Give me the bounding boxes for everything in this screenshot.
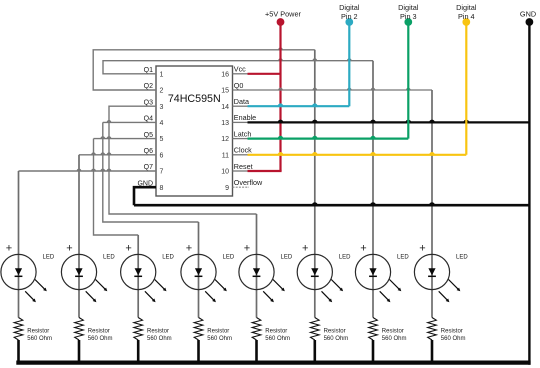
ground terminal GND [520, 10, 536, 26]
svg-text:560 Ohm: 560 Ohm [88, 336, 113, 342]
svg-text:LED: LED [43, 255, 55, 261]
svg-text:Resistor: Resistor [441, 329, 463, 335]
svg-text:4: 4 [160, 120, 164, 127]
svg-text:Vcc: Vcc [234, 65, 246, 74]
svg-text:GND: GND [520, 10, 536, 19]
pin 9 number and label Overflow [225, 178, 263, 192]
svg-text:Clock: Clock [234, 146, 252, 155]
pin 5 number and label Q5 [144, 132, 164, 143]
svg-text:Overflow: Overflow [234, 178, 263, 187]
svg-text:7: 7 [160, 169, 164, 176]
resistor R3 560 Ohm [134, 318, 172, 363]
resistor R2 560 Ohm [75, 318, 113, 363]
svg-text:2: 2 [160, 88, 164, 95]
LED D4 [181, 243, 235, 318]
resistor R6 560 Ohm [311, 318, 349, 363]
svg-text:11: 11 [222, 152, 229, 159]
svg-text:560 Ohm: 560 Ohm [382, 336, 407, 342]
ground vertical from GND terminal [528, 25, 530, 365]
svg-text:Pin 2: Pin 2 [341, 12, 358, 21]
pin 8 number and label GND [137, 180, 163, 191]
svg-text:+: + [419, 243, 425, 255]
svg-text:Q0: Q0 [234, 81, 244, 90]
svg-text:LED: LED [162, 255, 174, 261]
svg-text:LED: LED [103, 255, 115, 261]
svg-text:Digital: Digital [398, 3, 419, 12]
pin 12 number and label Latch [221, 129, 251, 143]
svg-text:1: 1 [160, 71, 164, 78]
svg-text:Q2: Q2 [144, 83, 153, 90]
pin 11 number and label Clock [222, 146, 252, 160]
svg-text:Resistor: Resistor [207, 329, 229, 335]
mid ground bus [134, 203, 529, 205]
svg-text:74HC595N: 74HC595N [168, 93, 221, 105]
svg-text:10: 10 [221, 169, 229, 176]
svg-text:+5V Power: +5V Power [265, 10, 301, 19]
svg-text:Resistor: Resistor [88, 329, 110, 335]
wire Q6 (pin 6) to LED 2 [79, 153, 156, 254]
resistor R5 560 Ohm [252, 318, 290, 363]
wire Reset (pin 10) to +5V [233, 170, 282, 172]
svg-text:Digital: Digital [456, 3, 477, 12]
pin 10 number and label Reset [221, 162, 252, 176]
svg-text:5: 5 [160, 136, 164, 143]
resistor R1 560 Ohm [14, 318, 52, 363]
svg-text:+: + [360, 243, 366, 255]
LED D8 [414, 243, 468, 318]
wire Q2 (pin 2) loop to LED 6 column [93, 48, 315, 254]
svg-text:Resistor: Resistor [324, 329, 346, 335]
svg-text:Q7: Q7 [144, 164, 153, 171]
svg-text:Q4: Q4 [144, 116, 153, 123]
LED D6 [297, 243, 351, 318]
svg-text:14: 14 [221, 104, 229, 111]
svg-text:LED: LED [223, 255, 235, 261]
LED D1 [1, 243, 55, 318]
svg-text:16: 16 [221, 71, 229, 78]
LED D7 [355, 243, 409, 318]
svg-text:Data: Data [234, 97, 249, 106]
wire Clock (pin 11) to Digital Pin 4 [233, 25, 467, 155]
svg-text:560 Ohm: 560 Ohm [27, 336, 52, 342]
svg-text:Resistor: Resistor [265, 329, 287, 335]
svg-text:560 Ohm: 560 Ohm [147, 336, 172, 342]
resistor R4 560 Ohm [194, 318, 232, 363]
pin 1 number and label Q1 [144, 67, 164, 78]
svg-text:9: 9 [225, 185, 229, 192]
terminal Digital Pin 2 [339, 3, 360, 26]
svg-text:Digital: Digital [339, 3, 360, 12]
wire Q0 (pin 15) to LED 8 [233, 88, 433, 254]
wire Q7 (pin 7) to LED 1 [19, 169, 157, 254]
wire Data (pin 14) to Digital Pin 2 [233, 25, 350, 106]
svg-text:15: 15 [221, 88, 229, 95]
svg-text:+: + [244, 243, 250, 255]
pin 14 number and label Data [221, 97, 249, 111]
svg-text:Latch: Latch [234, 129, 252, 138]
svg-text:8: 8 [160, 185, 164, 192]
svg-text:560 Ohm: 560 Ohm [207, 336, 232, 342]
svg-text:560 Ohm: 560 Ohm [324, 336, 349, 342]
pin 6 number and label Q6 [144, 148, 164, 159]
svg-text:Reset: Reset [234, 162, 253, 171]
svg-text:560 Ohm: 560 Ohm [441, 336, 466, 342]
pin 15 number and label Q0 [221, 81, 243, 95]
svg-text:6: 6 [160, 152, 164, 159]
svg-text:Resistor: Resistor [27, 329, 49, 335]
svg-text:+: + [66, 243, 72, 255]
svg-text:Q5: Q5 [144, 132, 153, 139]
svg-text:Q1: Q1 [144, 67, 153, 74]
wire Vcc (pin 16) to +5V [233, 73, 281, 75]
wire Q5 (pin 5) to LED 3 [94, 137, 157, 254]
svg-text:Q6: Q6 [144, 148, 153, 155]
terminal Digital Pin 4 [456, 3, 477, 26]
wire Latch (pin 12) to Digital Pin 3 [233, 25, 409, 139]
LED D5 [239, 243, 293, 318]
svg-text:3: 3 [160, 104, 164, 111]
wire +5V vertical [279, 25, 281, 171]
wire Enable (pin 13) to GND rail [233, 121, 530, 123]
svg-text:LED: LED [397, 255, 409, 261]
wire Overflow (pin 9) unconnected stub [233, 186, 250, 188]
pin 2 number and label Q2 [144, 83, 164, 94]
svg-text:Enable: Enable [234, 113, 256, 122]
svg-text:Pin 3: Pin 3 [400, 12, 417, 21]
resistor R8 560 Ohm [428, 318, 466, 363]
bottom ground bus [16, 361, 530, 365]
wire Q3 (pin 3) to LED 5 [109, 106, 257, 254]
svg-text:+: + [125, 243, 131, 255]
svg-text:+: + [302, 243, 308, 255]
svg-text:Pin 4: Pin 4 [458, 12, 475, 21]
wire Q1 (pin 1) loop to LED 7 column [103, 59, 373, 254]
pin 4 number and label Q4 [144, 116, 164, 127]
svg-text:Resistor: Resistor [382, 329, 404, 335]
svg-text:12: 12 [221, 136, 229, 143]
svg-text:LED: LED [281, 255, 293, 261]
pin 7 number and label Q7 [144, 164, 164, 175]
resistor R7 560 Ohm [369, 318, 407, 363]
LED D2 [61, 243, 115, 318]
svg-text:13: 13 [221, 120, 229, 127]
terminal Digital Pin 3 [398, 3, 419, 26]
power terminal +5V Power [265, 10, 301, 26]
svg-text:Q3: Q3 [144, 99, 153, 106]
pin 3 number and label Q3 [144, 99, 164, 110]
svg-text:+: + [6, 243, 12, 255]
svg-text:560 Ohm: 560 Ohm [265, 336, 290, 342]
pin 16 number and label Vcc [221, 65, 246, 79]
svg-text:LED: LED [339, 255, 351, 261]
wire Q4 (pin 4) to LED 4 [103, 121, 199, 255]
svg-text:LED: LED [456, 255, 468, 261]
IC U1 74HC595N shift register body [156, 66, 233, 196]
wire GND (pin 8) to mid ground bus [134, 187, 156, 205]
svg-text:+: + [186, 243, 192, 255]
svg-text:Resistor: Resistor [147, 329, 169, 335]
LED D3 [121, 243, 175, 318]
pin 13 number and label Enable [221, 113, 256, 127]
